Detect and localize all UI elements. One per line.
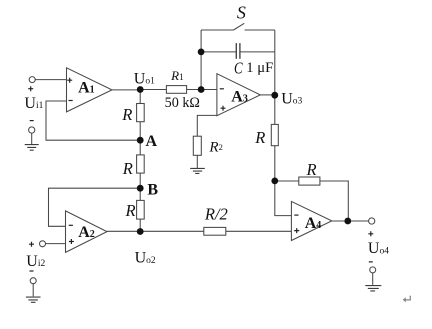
wire — [139, 122, 141, 155]
svg-text:A: A — [146, 133, 158, 150]
op-amp A3 triangle — [217, 74, 260, 116]
wire — [49, 188, 141, 226]
ground under Ui1 — [25, 145, 39, 151]
node Uo2 junction dot — [137, 228, 144, 235]
svg-text:B: B — [147, 182, 158, 199]
terminal Ui2 minus — [30, 278, 36, 284]
terminal Uo4 minus sign — [369, 261, 373, 263]
wire — [31, 133, 33, 144]
svg-text:R: R — [125, 201, 136, 220]
svg-text:Uo4: Uo4 — [368, 240, 389, 257]
wire — [226, 230, 292, 232]
svg-text:R1: R1 — [170, 68, 184, 83]
wire — [107, 230, 204, 232]
wire — [275, 180, 299, 182]
wire — [46, 101, 140, 140]
resistor R mid-left chain — [137, 155, 145, 173]
resistor R1 box — [166, 86, 186, 94]
svg-text:C: C — [234, 58, 243, 77]
node Uo3 junction dot — [271, 92, 278, 99]
op-amp A4 minus pin mark — [294, 214, 298, 216]
node Uo1 junction dot — [137, 86, 144, 93]
op-amp A2 minus pin mark — [69, 224, 73, 226]
terminal Ui1 plus — [29, 77, 35, 83]
op-amp A4 plus pin mark — [294, 228, 299, 233]
wire — [320, 181, 348, 221]
resistor R top-left chain — [137, 104, 145, 122]
svg-text:R/2: R/2 — [204, 205, 228, 224]
svg-text:R: R — [254, 128, 265, 147]
svg-text:R: R — [122, 159, 133, 178]
svg-text:1 μF: 1 μF — [246, 60, 273, 76]
wire — [201, 51, 236, 53]
svg-text:50 kΩ: 50 kΩ — [165, 95, 200, 111]
wire — [275, 146, 292, 216]
wire — [201, 29, 233, 31]
wire — [139, 90, 141, 104]
wire — [274, 30, 276, 124]
svg-text:Uo2: Uo2 — [135, 250, 156, 267]
wire — [45, 243, 65, 245]
wire — [187, 89, 217, 91]
terminal Ui2 plus — [40, 241, 46, 247]
resistor R feedback A4 — [299, 177, 320, 185]
op-amp A3 plus pin mark — [221, 106, 226, 111]
wire — [240, 51, 275, 53]
wire — [35, 79, 66, 81]
terminal Ui2 plus sign — [29, 242, 34, 247]
capacitor C plate right — [239, 43, 241, 59]
resistor R right vertical — [271, 124, 278, 145]
wire — [139, 219, 141, 232]
wire — [245, 29, 275, 31]
svg-text:S: S — [237, 3, 246, 23]
terminal Ui2 minus sign — [30, 270, 34, 272]
terminal Uo4 plus — [369, 218, 375, 224]
op-amp A1 minus pin mark — [69, 100, 73, 102]
resistor R2 box — [193, 136, 201, 155]
wire — [332, 220, 369, 222]
switch S blade — [234, 23, 245, 30]
op-amp A1 triangle — [67, 68, 113, 112]
node right-mid junction dot — [271, 178, 278, 185]
svg-text:Ui2: Ui2 — [26, 253, 45, 270]
wire — [196, 155, 198, 168]
terminal Uo4 plus sign — [368, 231, 373, 236]
resistor R bottom-left chain — [137, 200, 145, 219]
op-amp A2 plus pin mark — [69, 239, 74, 244]
capacitor C plate left — [235, 43, 237, 59]
svg-text:Uo1: Uo1 — [134, 70, 155, 87]
pilcrow return mark — [403, 296, 411, 302]
terminal Ui1 minus — [29, 127, 35, 133]
node A junction dot — [137, 137, 144, 144]
node R1-right junction dot — [198, 86, 205, 93]
terminal Ui1 plus sign — [28, 86, 33, 91]
wire — [32, 284, 34, 297]
op-amp A1 plus pin mark — [67, 78, 72, 83]
node capacitor-left junction dot — [198, 49, 205, 56]
op-amp A3 minus pin mark — [220, 88, 224, 90]
svg-text:R: R — [306, 160, 317, 179]
wire — [260, 94, 275, 96]
svg-text:Ui1: Ui1 — [24, 95, 43, 112]
node A4-output junction dot — [344, 218, 351, 225]
op-amp A2 triangle — [66, 211, 108, 253]
svg-text:R2: R2 — [208, 139, 222, 155]
resistor R/2 box — [204, 227, 226, 235]
svg-text:Uo3: Uo3 — [281, 90, 302, 107]
wire — [112, 89, 140, 91]
wire — [372, 273, 374, 285]
op-amp A4 triangle — [291, 201, 331, 240]
svg-text:R: R — [121, 105, 132, 124]
ground under Ui2 — [26, 297, 41, 302]
wire — [140, 89, 166, 91]
ground under Uo4 — [365, 286, 381, 291]
wire — [197, 115, 217, 136]
wire — [200, 30, 202, 90]
terminal Ui1 minus sign — [30, 120, 34, 122]
node B junction dot — [137, 185, 144, 192]
wire — [139, 173, 141, 200]
terminal Uo4 minus — [370, 267, 376, 273]
ground under R2 — [190, 168, 205, 173]
